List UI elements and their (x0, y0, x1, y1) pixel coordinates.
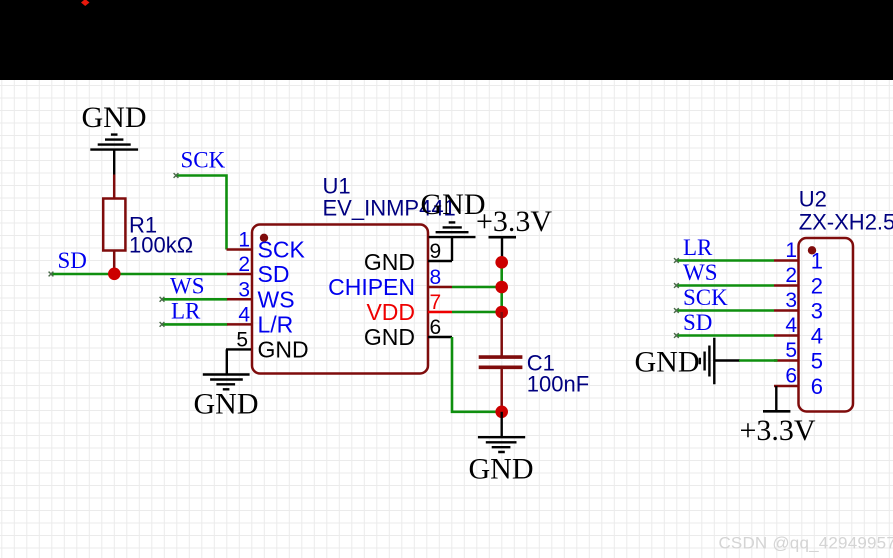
svg-text:4: 4 (238, 303, 250, 326)
svg-text:2: 2 (811, 274, 823, 299)
svg-text:4: 4 (785, 314, 797, 337)
U1 pin 4 (227, 303, 293, 337)
svg-text:U2: U2 (799, 187, 827, 212)
wire pin 6 down to ground node (452, 337, 496, 412)
ground symbol (U1 pin 5) (194, 349, 259, 420)
svg-text:WS: WS (170, 273, 205, 298)
wire LR (160, 322, 228, 327)
junction node (C1 bottom) (495, 406, 508, 419)
svg-text:GND: GND (82, 101, 147, 134)
wire LR to U2.1 (674, 258, 774, 263)
U2 pin 1 (774, 239, 823, 274)
wire pin 7 to node (452, 311, 497, 314)
svg-text:8: 8 (430, 266, 442, 289)
junction node (pin 7 / VDD) (495, 306, 508, 319)
svg-text:SD: SD (58, 248, 87, 273)
wire SCK to U2.3 (674, 308, 774, 313)
svg-text:3: 3 (785, 289, 797, 312)
ground symbol (U1 pin 9, pointing up) (421, 188, 486, 261)
U1 pin 5 (226, 328, 309, 362)
red cursor mark (81, 0, 90, 6)
svg-text:+3.3V: +3.3V (476, 205, 552, 238)
svg-text:LR: LR (683, 235, 713, 260)
svg-text:ZX-XH2.54: ZX-XH2.54 (799, 210, 893, 235)
svg-text:1: 1 (785, 239, 797, 262)
svg-text:5: 5 (236, 328, 248, 351)
svg-text:6: 6 (785, 365, 797, 388)
svg-text:GND: GND (364, 249, 415, 275)
svg-text:SD: SD (258, 261, 290, 287)
U2 pin 4 (774, 314, 823, 349)
svg-text:1: 1 (238, 229, 250, 252)
power symbol +3.3V (U2 pin 6) (739, 386, 815, 447)
wire WS (160, 297, 228, 302)
svg-text:2: 2 (785, 264, 797, 287)
svg-text:CSDN @qq_42949957: CSDN @qq_42949957 (718, 534, 893, 553)
svg-text:SD: SD (683, 310, 712, 335)
junction node (rail top) (495, 256, 508, 269)
svg-text:+3.3V: +3.3V (739, 414, 815, 447)
U1 pin 1 (227, 229, 306, 263)
wire SD (49, 272, 228, 277)
svg-text:GND: GND (194, 388, 259, 421)
svg-text:100kΩ: 100kΩ (129, 233, 193, 258)
U1 pin 7 (366, 291, 452, 325)
U1 pin 9 (364, 240, 452, 275)
svg-text:5: 5 (811, 349, 823, 374)
svg-text:SCK: SCK (683, 285, 728, 310)
svg-text:6: 6 (811, 374, 823, 399)
wire SD to U2.4 (674, 333, 774, 338)
U2 pin 3 (774, 289, 823, 324)
svg-text:6: 6 (430, 316, 442, 339)
U1 pin 6 (364, 316, 452, 350)
wire GND to U2.5 (739, 359, 778, 362)
resistor R1 (103, 175, 193, 271)
top black banner (0, 0, 893, 80)
U1 pin 3 (227, 278, 295, 312)
U2 pin 6 (774, 365, 823, 400)
svg-text:GND: GND (258, 336, 309, 362)
power symbol +3.3V (top) (476, 205, 552, 259)
junction node (pin 8) (495, 281, 508, 294)
svg-text:GND: GND (469, 453, 534, 486)
svg-text:5: 5 (785, 339, 797, 362)
wire pin 8 to node (452, 286, 497, 289)
connector U2 ZX-XH2.54 (799, 187, 893, 412)
svg-text:SCK: SCK (258, 237, 306, 263)
wire WS to U2.2 (674, 283, 774, 288)
wire +3.3V rail (500, 262, 503, 312)
svg-text:9: 9 (430, 240, 442, 263)
power symbol GND (top left) (82, 101, 147, 175)
svg-text:3: 3 (811, 299, 823, 324)
svg-text:VDD: VDD (366, 299, 415, 325)
svg-text:2: 2 (238, 253, 250, 276)
capacitor C1 (479, 312, 589, 412)
svg-text:CHIPEN: CHIPEN (328, 274, 415, 300)
U1 pin 8 (328, 266, 452, 300)
wire SCK (174, 173, 227, 249)
svg-text:SCK: SCK (181, 148, 226, 173)
svg-text:GND: GND (364, 324, 415, 350)
svg-text:GND: GND (635, 346, 700, 379)
svg-text:WS: WS (258, 286, 295, 312)
ground symbol (below C1) (469, 412, 534, 486)
svg-text:1: 1 (811, 249, 823, 274)
ground symbol (U2 pin 5, pointing left) (635, 338, 741, 385)
U2 pin 5 (774, 339, 823, 374)
U1 pin 2 (227, 253, 289, 287)
junction node SD/R1 (108, 268, 121, 281)
svg-text:3: 3 (238, 278, 250, 301)
svg-text:WS: WS (683, 260, 718, 285)
svg-text:7: 7 (430, 291, 442, 314)
svg-text:100nF: 100nF (527, 372, 589, 397)
U2 pin 2 (774, 264, 823, 299)
svg-text:4: 4 (811, 324, 823, 349)
IC U1 EV_INMP441 (252, 173, 456, 373)
svg-text:L/R: L/R (258, 311, 294, 337)
svg-text:LR: LR (171, 299, 201, 324)
